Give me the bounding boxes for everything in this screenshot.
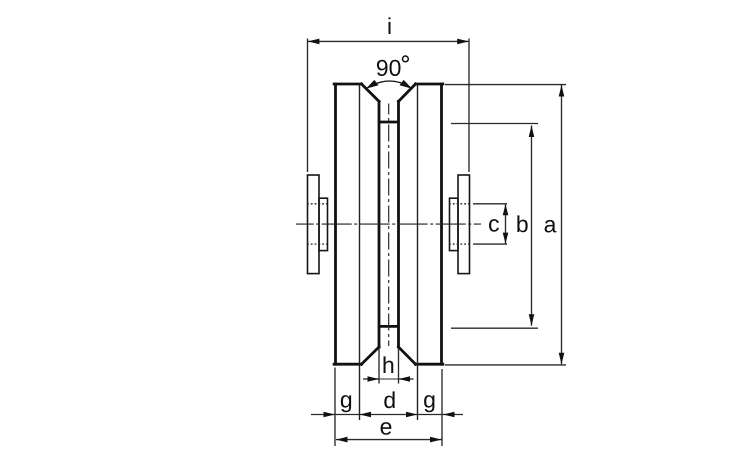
- V-groove slopes bottom: [362, 347, 416, 364]
- dimension h arrows: [368, 376, 411, 382]
- hub right plates: [450, 175, 470, 274]
- dimension a arrows: [559, 85, 565, 364]
- wheel outline (thick profile): [334, 84, 443, 364]
- dimension i line: [308, 39, 470, 173]
- dimension g d g line: [311, 368, 463, 447]
- inner thin edges: [360, 84, 418, 420]
- dimension e arrows: [336, 437, 442, 443]
- dimension h: [363, 349, 414, 384]
- label g left: [341, 395, 351, 412]
- dimension i arrows: [308, 39, 469, 45]
- hidden bore lines left (dotted): [307, 204, 328, 244]
- hub left plates: [308, 175, 328, 274]
- dimension c arrows: [503, 204, 509, 243]
- center line vertical: [388, 104, 390, 347]
- label i: [388, 17, 390, 34]
- dimension b: [451, 124, 538, 329]
- label a: [545, 220, 557, 233]
- label b: [517, 215, 527, 232]
- 90 degree arc: [369, 81, 410, 87]
- dimension c: [473, 204, 507, 244]
- hidden bore lines right (dotted): [449, 204, 470, 244]
- groove bottom lines: [379, 122, 399, 326]
- V-groove slopes top: [362, 84, 416, 101]
- label c: [489, 219, 499, 232]
- label g right: [424, 395, 434, 412]
- label h: [384, 356, 394, 373]
- arc arrow left: [366, 80, 379, 89]
- dimension e: [336, 439, 442, 441]
- dimension g d g arrows: [324, 412, 455, 418]
- label 90deg: [377, 60, 401, 76]
- dimension b arrows: [529, 126, 535, 326]
- arc arrow right: [400, 80, 413, 89]
- label d: [384, 391, 394, 408]
- center line horizontal: [296, 223, 481, 225]
- dimension a: [445, 85, 566, 365]
- label e: [381, 422, 392, 435]
- bore walls: [379, 101, 399, 347]
